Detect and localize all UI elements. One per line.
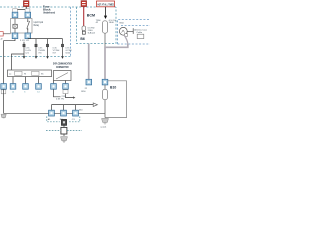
label Fuse Block Underhood	[43, 5, 55, 15]
sub-box 1	[15, 71, 22, 75]
DLC internal diagonal	[56, 73, 68, 79]
DLC label	[53, 61, 72, 69]
terminal box	[137, 34, 144, 38]
connector arrows on boundary	[23, 56, 26, 59]
drops to cluster connectors	[52, 105, 76, 111]
relay top connector C2	[25, 12, 31, 18]
pin label box under first connector	[1, 90, 6, 94]
svg-text:B6: B6	[80, 37, 84, 41]
label next to fusible element	[88, 28, 96, 35]
wire capsule to splice	[104, 33, 106, 47]
drops from DLC box	[54, 81, 66, 84]
instrument panel dashed boundary bottom	[0, 56, 71, 58]
data comm module box	[8, 70, 52, 77]
connector pin label boxes above relay	[13, 9, 18, 12]
thick gray wire from radio box	[105, 44, 128, 79]
tiny labels under connectors	[12, 91, 41, 93]
relay K1 coil	[14, 19, 16, 34]
svg-text:G305: G305	[100, 126, 107, 129]
connector row squares	[1, 84, 7, 90]
svg-text:0.35 TN: 0.35 TN	[56, 99, 64, 101]
splice boxes on drops	[23, 44, 25, 47]
relay bottom connector C3	[12, 33, 18, 39]
long ground bus wire	[4, 113, 105, 115]
labels beside arrow	[96, 20, 117, 24]
wire splice to ground	[63, 134, 65, 136]
thick gray wire from BCM B6	[88, 44, 90, 80]
svg-text:Relay: Relay	[34, 23, 40, 27]
ground G2	[61, 137, 68, 143]
feed wire with arrow	[105, 7, 107, 16]
svg-text:1840: 1840	[109, 22, 115, 24]
terminal label text	[134, 28, 147, 34]
off-page reference (red) at left edge	[0, 32, 3, 36]
return loop wires	[105, 81, 127, 118]
inner dashed line	[121, 25, 150, 27]
splice S2	[61, 127, 67, 134]
DLC box	[54, 71, 72, 81]
fuse capsule lower	[103, 89, 108, 99]
fusible element on red feed	[82, 26, 86, 31]
serial data bus with off-page arrow	[52, 104, 94, 106]
wire circle to terminal	[127, 28, 133, 34]
relay bottom connector C4	[25, 33, 31, 39]
BCM dashed box	[77, 7, 117, 44]
svg-text:HOT AT ALL TIMES: HOT AT ALL TIMES	[97, 2, 114, 6]
pin box + wire from connector 6	[63, 90, 68, 94]
radio feed connector	[102, 79, 108, 85]
wire from connector 5	[54, 89, 61, 97]
relay top connector C1	[12, 12, 18, 18]
ground G1	[1, 114, 6, 118]
wire drop W2	[47, 39, 49, 57]
fuse capsule mid	[103, 21, 108, 33]
wire shield to splice	[63, 125, 65, 127]
svg-text:B10: B10	[110, 85, 116, 89]
wire off-page to relay	[3, 33, 10, 35]
svg-text:BCM: BCM	[87, 14, 95, 18]
fuse block underhood dashed boundary top	[0, 6, 116, 8]
cluster connector B	[61, 110, 67, 116]
svg-text:Underhood: Underhood	[43, 11, 55, 15]
fuse F1 (red)	[23, 1, 29, 7]
svg-text:Antenna Coax: Antenna Coax	[134, 28, 147, 31]
cluster connector C	[73, 110, 79, 116]
wire labels mid row	[25, 48, 72, 55]
svg-text:5 GY 121: 5 GY 121	[20, 40, 30, 42]
red feed wire from F2	[83, 7, 85, 26]
labels under cluster connectors	[48, 118, 76, 121]
svg-text:Sh: Sh	[41, 74, 43, 76]
ground wire left	[3, 89, 5, 113]
relay K1 label	[34, 20, 44, 27]
fuse F2 (red)	[81, 1, 87, 7]
svg-text:CONNECTOR: CONNECTOR	[56, 65, 69, 69]
shield dashes row2	[46, 130, 82, 132]
right dashed box (radio)	[118, 20, 151, 45]
wire relay C3 to ground run	[4, 39, 15, 84]
svg-text:Cable: Cable	[136, 32, 142, 34]
wire drop W3 with branch to module	[12, 42, 25, 70]
shield node S1	[61, 119, 66, 125]
gray drop from module	[124, 35, 128, 44]
antenna module circle	[119, 27, 127, 35]
wire fuse F1 to relay connectors	[15, 7, 28, 13]
bus wire from relay C4	[28, 39, 63, 57]
relay K1 box	[11, 19, 33, 34]
drops from module to connectors	[13, 77, 39, 84]
shield dashed links	[47, 116, 60, 121]
relay K1 switch	[27, 19, 30, 34]
BCM output connector	[86, 79, 92, 85]
sub-box 2	[32, 71, 39, 75]
svg-text:S-Band: S-Band	[88, 33, 96, 35]
fuse block dashed boundary right	[70, 7, 72, 57]
wire drop W1	[35, 39, 37, 57]
hot at all times label box (red)	[97, 1, 115, 7]
ground G3	[102, 118, 109, 124]
svg-text:DATA COMMUNICATION: DATA COMMUNICATION	[53, 61, 72, 65]
cluster connector A	[49, 110, 55, 116]
